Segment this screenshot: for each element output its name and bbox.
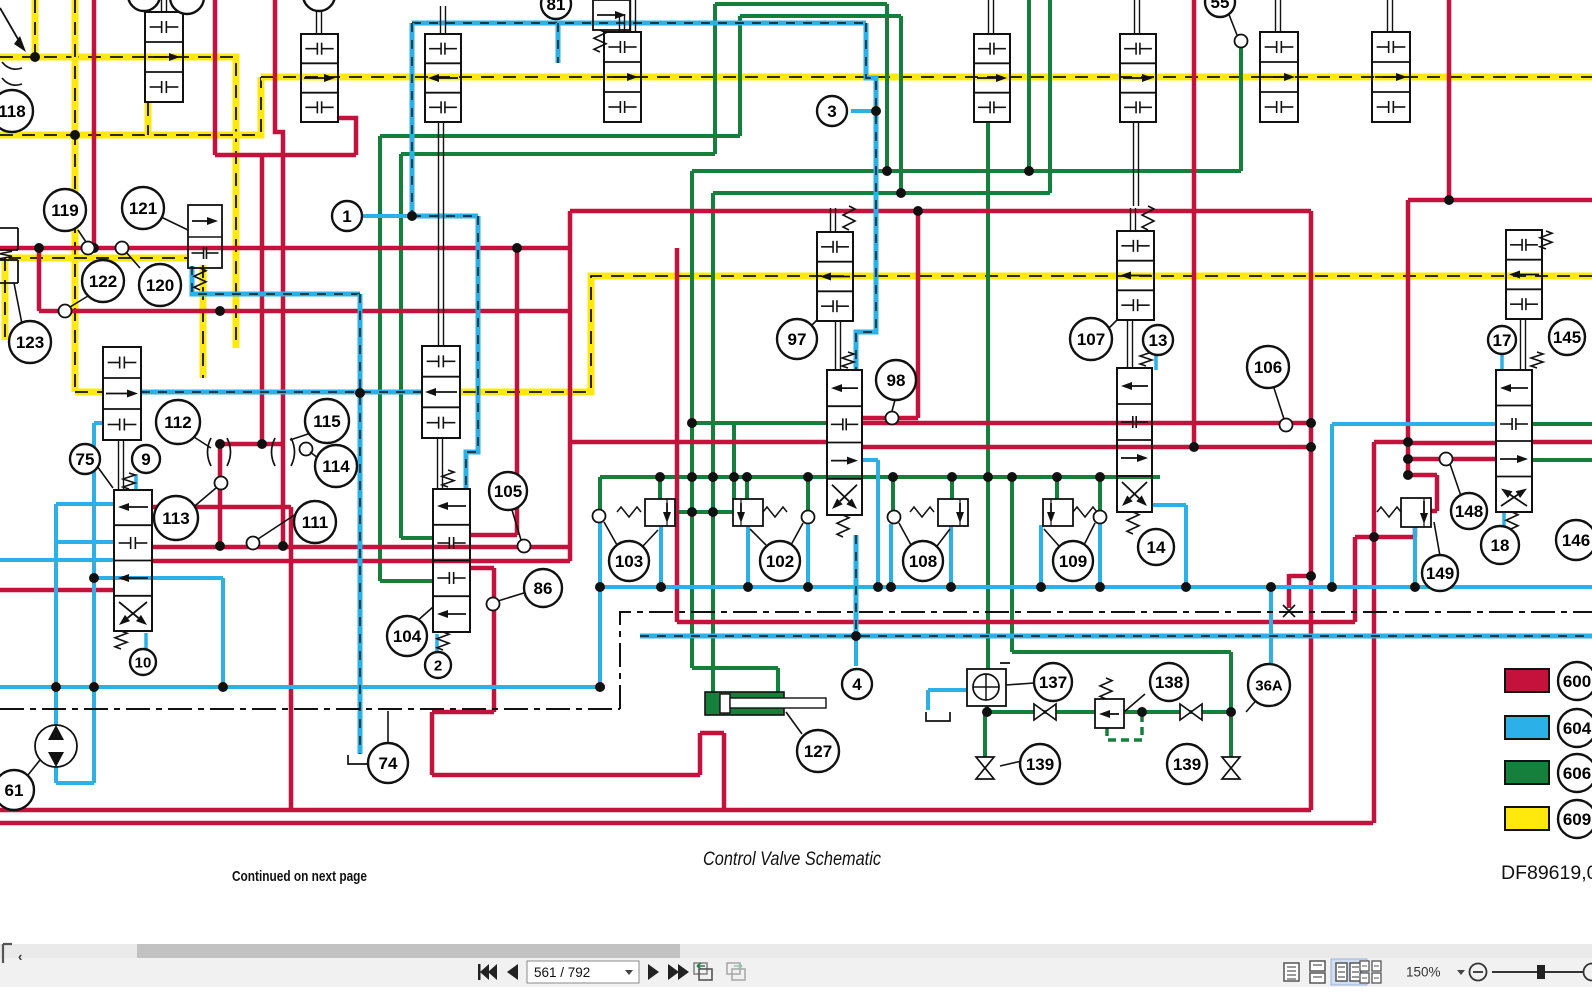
valve 17 upper section: [1506, 230, 1542, 319]
valve stem: [440, 6, 442, 34]
green wire 606 top link y16: [740, 14, 901, 18]
svg-text:109: 109: [1059, 552, 1087, 571]
green wire 606 to bleed manifold: [1012, 477, 1231, 757]
svg-text:138: 138: [1155, 673, 1183, 692]
blue wire valve149 drain: [1413, 527, 1417, 587]
red wire 600 valve149 drain: [1355, 527, 1415, 622]
zoom out button: [1470, 964, 1487, 981]
blue wire 604 return bus y587: [600, 585, 1592, 589]
blue wire check108 drain: [949, 525, 953, 587]
callout 18: [1481, 526, 1519, 564]
red wire 600 vertical x215: [213, 0, 218, 155]
callout 36A: [1248, 664, 1290, 706]
bleed valve 139a: [976, 757, 994, 768]
spring above valve107 lower: [1140, 350, 1152, 366]
junction: [656, 582, 666, 592]
svg-text:17: 17: [1493, 331, 1512, 350]
red wire 600 valve75 right to frame: [152, 507, 291, 810]
junction: [1369, 532, 1379, 542]
red wire 600 y590: [0, 588, 114, 593]
red wire 600 to valve104 right: [470, 248, 517, 535]
red wire 600 lower-left loop: [432, 568, 724, 810]
callout 17: [1488, 326, 1516, 354]
blue stub node 17: [1500, 352, 1504, 370]
leader 109b: [1044, 529, 1059, 546]
blue wire valve75 port x94: [94, 423, 103, 783]
red wire 600 inner frame bottom: [0, 808, 1311, 813]
junction: [803, 582, 813, 592]
svg-text:121: 121: [129, 199, 157, 218]
junction: [1403, 454, 1413, 464]
valve section G: [1372, 32, 1410, 122]
junction: [708, 507, 718, 517]
svg-text:36A: 36A: [1255, 677, 1283, 694]
junction: [512, 243, 522, 253]
green wire 606 x600 drop: [598, 477, 602, 510]
callout 9: [132, 445, 160, 473]
callout 114: [315, 445, 357, 487]
leader 123: [14, 283, 22, 324]
callout 107: [1070, 318, 1112, 360]
junction: [1410, 582, 1420, 592]
svg-text:86: 86: [534, 579, 553, 598]
junction: [947, 472, 957, 482]
svg-text:104: 104: [393, 627, 422, 646]
blue wire check103 drain b: [659, 527, 663, 587]
pilot to valve104 lower: [412, 216, 478, 489]
green wire check108 feed: [950, 477, 954, 499]
callout 75: [70, 444, 100, 474]
valve stem: [1130, 208, 1132, 231]
compensator check 108: [938, 499, 968, 526]
green wire 606 vertical x713 to cylinder head side: [711, 193, 715, 692]
svg-text:81: 81: [547, 0, 566, 14]
leader 102b: [750, 529, 766, 545]
red wire 600 vertical x570: [568, 211, 573, 561]
callout: [303, 0, 335, 11]
leader 75: [97, 466, 113, 488]
svg-text:13: 13: [1149, 331, 1168, 350]
leader 139a: [1000, 753, 1056, 766]
test point 111: [247, 537, 260, 550]
valve 123 body a: [0, 228, 18, 250]
yellow wire valve-A drain: [145, 103, 152, 135]
green wire compensator drop: [985, 706, 989, 712]
red wire 600 vertical x262: [260, 155, 265, 444]
svg-text:103: 103: [615, 552, 643, 571]
red wire 600 outer frame vertical x1374: [1374, 442, 1408, 823]
pilot to relief 81: [556, 23, 561, 63]
leader 112: [194, 437, 211, 448]
spring valve 149: [1377, 507, 1401, 517]
junction: [70, 130, 80, 140]
callout 2: [425, 652, 451, 678]
callout 145: [1549, 319, 1585, 355]
svg-text:107: 107: [1077, 330, 1105, 349]
red wire 600 top bus y211: [570, 209, 1311, 214]
leader 104: [416, 607, 433, 622]
pilot from valve121: [192, 266, 360, 294]
callout 104: [387, 616, 427, 656]
green wire 606 horizontal y136: [380, 134, 740, 138]
junction: [1403, 470, 1413, 480]
leader 137: [1006, 683, 1034, 685]
valve section F: [1260, 32, 1298, 122]
leader 114: [310, 452, 322, 461]
svg-text:120: 120: [146, 276, 174, 295]
bleed valve 139b: [1222, 757, 1240, 768]
svg-text:102: 102: [766, 552, 794, 571]
junction: [1137, 707, 1147, 717]
junction: [1444, 195, 1454, 205]
junction: [886, 582, 896, 592]
green pilot dashed under relief 138: [1107, 714, 1142, 740]
junction: [743, 582, 753, 592]
callout 148: [1451, 493, 1487, 529]
callout 609: [1558, 800, 1592, 838]
valve body whites: [103, 0, 1542, 632]
svg-text:139: 139: [1026, 755, 1054, 774]
yellow wire return at y135: [0, 77, 261, 135]
horizontal scrollbar track: [0, 944, 1592, 958]
valve 97 upper section: [817, 232, 853, 321]
blue wire 604 from node 1: [362, 214, 412, 218]
stem below valve H: [438, 122, 440, 346]
sidebar collapse icon: [3, 944, 12, 963]
callout: [128, 0, 160, 11]
legend swatch 600: [1505, 669, 1549, 692]
green wire 606 x734 drop: [732, 423, 736, 499]
junction: [803, 472, 813, 482]
red wire 600 return y622: [677, 620, 1355, 625]
test point 120: [116, 242, 129, 255]
valve section A (top-left): [145, 12, 183, 102]
spring relief 138: [1100, 678, 1112, 699]
junction: [687, 418, 697, 428]
green wire 606 vertical x901: [899, 16, 903, 193]
red wire 600 valve149 inlet loop: [1408, 475, 1437, 511]
leader 109: [1084, 523, 1095, 545]
spring valve107 lower: [1127, 512, 1139, 534]
junction: [729, 472, 739, 482]
green wire 606 to valve104 lower: [380, 136, 433, 581]
junction: [1306, 442, 1316, 452]
green wire 606 bus y171: [692, 169, 1241, 173]
svg-text:14: 14: [1147, 538, 1166, 557]
toolbar background: [0, 944, 1592, 987]
callout 606: [1558, 754, 1592, 792]
valve 107 upper section: [1117, 231, 1154, 320]
nav first-page button: [480, 964, 489, 980]
svg-text:‹: ‹: [18, 949, 22, 964]
partial symbol top-left: [0, 8, 22, 46]
junction: [89, 573, 99, 583]
svg-text:150%: 150%: [1406, 965, 1441, 980]
red wire 600 y423 bus: [862, 421, 1311, 426]
blue wire x600 to return: [598, 523, 602, 687]
red wire 600 inner frame vertical x1311: [1309, 211, 1314, 810]
red wire 600 main supply y248: [0, 246, 570, 251]
svg-text:137: 137: [1039, 673, 1067, 692]
junction: [655, 472, 665, 482]
callout 97: [777, 319, 817, 359]
flow compensator 137: [967, 669, 1006, 706]
leader 106: [1273, 385, 1284, 419]
next-view icon (disabled): [727, 963, 745, 980]
svg-text:75: 75: [76, 450, 95, 469]
pilot bus y636: [640, 634, 1592, 639]
junction: [983, 472, 993, 482]
junction: [215, 306, 225, 316]
callout 108: [903, 541, 943, 581]
shutoff valve b: [1180, 704, 1191, 720]
leader 98: [892, 400, 895, 411]
green wire 606 manifold bus y712: [985, 710, 1231, 714]
red wire 600 valve17 feed y443: [1408, 441, 1496, 446]
leader 121: [159, 216, 188, 230]
blue wire compensator tank: [928, 690, 967, 710]
svg-text:609: 609: [1563, 810, 1591, 829]
green wire 606 from top x1050: [1048, 0, 1052, 193]
junction: [1306, 418, 1316, 428]
callout 102: [760, 541, 800, 581]
junction: [946, 582, 956, 592]
junction: [742, 472, 752, 482]
junction: [595, 682, 605, 692]
junction: [407, 211, 417, 221]
horizontal scrollbar thumb: [137, 944, 680, 958]
svg-text:119: 119: [51, 201, 78, 220]
svg-text:105: 105: [494, 482, 522, 501]
green wire 606 x1100 drop: [1098, 477, 1102, 510]
svg-text:114: 114: [322, 457, 350, 476]
callout 115: [305, 399, 349, 443]
valve 104 lower section: [433, 489, 470, 632]
hose mark 115/114: [272, 438, 295, 466]
green wire 606 vertical x988 to compensator: [986, 122, 990, 669]
spring of relief 81: [594, 30, 606, 52]
callout 74: [368, 743, 408, 783]
leader 119: [78, 230, 86, 242]
spring valve 75 mid: [123, 473, 135, 489]
blue wire from check point 108: [889, 524, 893, 587]
pilot valve75 to valve104: [141, 390, 422, 395]
tank symbol at x360: [348, 755, 372, 764]
pilot below valve97: [854, 535, 859, 636]
svg-text:606: 606: [1563, 764, 1591, 783]
red wire 600 vertical x1408 to valve149: [1406, 200, 1411, 475]
junction: [882, 166, 892, 176]
callout 13: [1143, 325, 1173, 355]
callout 139: [1020, 744, 1060, 784]
callout 112: [156, 400, 200, 444]
leader 111: [258, 514, 296, 539]
test point 108: [888, 511, 901, 524]
yellow wire to valve 121: [8, 255, 188, 262]
green wire 606 to valve104 mid: [401, 154, 433, 538]
junction: [896, 188, 906, 198]
green wire 606 vertical x740: [738, 16, 742, 136]
test point 109: [1094, 511, 1107, 524]
svg-text:108: 108: [909, 552, 937, 571]
callout 146: [1556, 520, 1592, 560]
nav last-page button: [668, 964, 679, 980]
svg-text:122: 122: [89, 272, 117, 291]
valve 17 lower section: [1496, 370, 1532, 512]
blue wire check109 drain a: [1039, 525, 1043, 587]
junction: [1052, 472, 1062, 482]
red wire 600 outer frame bottom: [0, 821, 1373, 826]
svg-text:145: 145: [1553, 328, 1581, 347]
green wire valve17 right y460: [1532, 458, 1592, 462]
blue wire valve107 drain: [1152, 505, 1186, 587]
svg-text:106: 106: [1254, 358, 1282, 377]
valve 123 body b: [0, 260, 18, 283]
blue stub valve 75: [134, 474, 138, 490]
blue wire 604 y560 from left: [0, 558, 114, 562]
callout 600: [1558, 662, 1592, 700]
spring valve17 lower: [1506, 512, 1518, 534]
valve stem: [1387, 0, 1389, 32]
valve stem: [1127, 320, 1129, 368]
junction: [355, 388, 365, 398]
svg-text:61: 61: [5, 781, 24, 800]
junction: [982, 707, 992, 717]
yellow wire from top at x75 to valve75: [75, 0, 103, 392]
junction: [708, 472, 718, 482]
leader 103: [604, 522, 617, 545]
callout 81: [541, 0, 571, 19]
spring valve107 upper: [1142, 206, 1154, 230]
nav prev-page button: [507, 964, 518, 980]
junction: [215, 439, 225, 449]
green wire 606 bus y477: [600, 475, 1160, 479]
pilot bus top y23: [412, 21, 866, 26]
valve 75 lower section: [114, 490, 152, 631]
leader 120: [126, 252, 140, 268]
junction: [1266, 582, 1276, 592]
stem valve 104: [437, 438, 439, 489]
leader to 74: [387, 711, 389, 743]
svg-text:55: 55: [1211, 0, 1230, 12]
blue wire pump loop: [56, 504, 114, 783]
callout: [170, 0, 204, 14]
red wire 600 vertical x220: [218, 444, 223, 546]
test point 102: [802, 511, 815, 524]
junction: [1306, 571, 1316, 581]
junction: [89, 243, 99, 253]
green wire 606 horizontal y154: [401, 152, 715, 156]
blue wire check102 drain: [746, 527, 750, 587]
spring valve 75 lower: [115, 631, 127, 649]
svg-text:112: 112: [164, 413, 191, 432]
valve section C: [604, 32, 641, 122]
prev-view icon: [694, 963, 712, 980]
callout 604: [1558, 709, 1592, 747]
junction: [913, 206, 923, 216]
blue wire to node 36A: [1269, 587, 1273, 663]
leader 115: [290, 430, 320, 440]
svg-text:600: 600: [1563, 672, 1591, 691]
compensator check 109: [1043, 499, 1073, 526]
blue wire valve97 drain a: [862, 460, 878, 587]
green wire 606 vertical x887: [885, 4, 889, 171]
green wire 606 x808 drop: [806, 477, 810, 510]
junction: [257, 439, 267, 449]
yellow wire from top at x35: [32, 0, 39, 57]
callout 10: [130, 649, 156, 675]
callout 119: [44, 189, 86, 231]
blue stub node 13: [1154, 352, 1158, 370]
leader 99: [1228, 12, 1237, 35]
svg-text:139: 139: [1173, 755, 1201, 774]
zoom in button (clipped): [1584, 964, 1592, 981]
junction: [851, 631, 861, 641]
red wire 600 vertical x275 with jog: [275, 0, 283, 546]
red wire 600 y561: [152, 559, 570, 564]
svg-text:118: 118: [0, 102, 26, 121]
svg-text:Continued on next page: Continued on next page: [232, 869, 367, 885]
callout 98: [876, 360, 916, 400]
leader 148: [1450, 464, 1461, 496]
spring above valve97 lower: [842, 352, 854, 368]
red wire 600 y459 through orifice 148: [1408, 457, 1496, 462]
junction: [1036, 582, 1046, 592]
junction: [1327, 582, 1337, 592]
layout icon two-page (selected): [1331, 959, 1367, 985]
leader 127: [786, 712, 802, 734]
red wire 600 y444 link: [220, 442, 283, 447]
blue wire from check point 109: [1098, 524, 1102, 587]
valve 104 upper section: [422, 346, 460, 438]
leader 61: [28, 760, 40, 775]
spring valve 104 lower: [437, 632, 449, 650]
valve 107 lower section: [1117, 368, 1152, 512]
leader 102: [791, 523, 803, 545]
valve stem: [830, 208, 832, 232]
callout 139: [1167, 744, 1207, 784]
test point 106: [1280, 419, 1293, 432]
spring valve 123: [0, 250, 12, 260]
junction: [1189, 442, 1199, 452]
relief valve 138: [1095, 699, 1124, 728]
layout icon continuous: [1310, 961, 1325, 983]
green wire 606 x893 drop: [891, 477, 895, 510]
green wire to bleed valve a: [983, 712, 987, 757]
check 99: [1235, 35, 1248, 48]
callout 138: [1150, 663, 1188, 701]
svg-text:561 / 792: 561 / 792: [534, 965, 590, 980]
leader 138: [1124, 694, 1145, 712]
junction: [215, 541, 225, 551]
valve stem: [316, 6, 318, 34]
tank symbol at compensator: [926, 712, 950, 721]
red wire 600 y200 top right: [1408, 198, 1592, 203]
svg-text:4: 4: [852, 675, 862, 694]
yellow wire 609 upper-left run: [0, 57, 236, 348]
callout 121: [122, 187, 164, 229]
junction: [595, 582, 605, 592]
valve stem: [835, 321, 837, 370]
equipment boundary dash-dot y709: [0, 708, 620, 710]
green wire valve17 right y424: [1532, 422, 1592, 426]
valve section D: [974, 34, 1010, 122]
shutoff valve a: [1034, 704, 1045, 720]
callout 4: [842, 669, 872, 699]
callout 103: [609, 541, 649, 581]
red wire 600 vertical x1194: [1192, 0, 1197, 447]
callout 55: [1205, 0, 1235, 17]
